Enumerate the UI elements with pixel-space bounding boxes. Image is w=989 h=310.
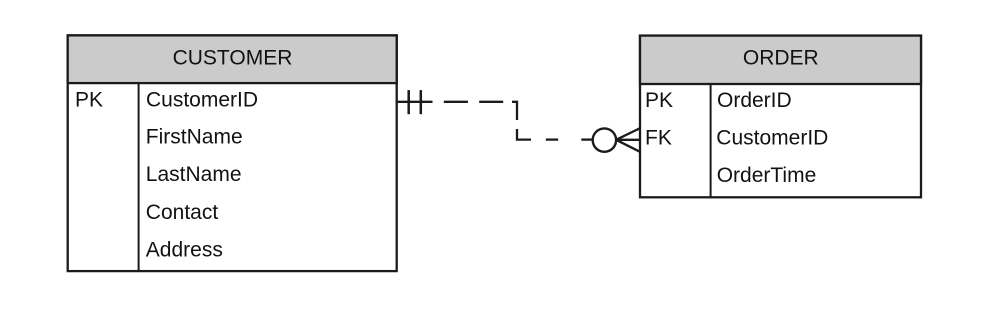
svg-text:FK: FK — [645, 127, 672, 150]
svg-text:PK: PK — [75, 89, 103, 112]
svg-text:Address: Address — [146, 238, 223, 261]
svg-text:ORDER: ORDER — [743, 47, 819, 70]
svg-text:CustomerID: CustomerID — [716, 127, 828, 150]
svg-text:CUSTOMER: CUSTOMER — [173, 47, 293, 70]
svg-text:PK: PK — [645, 89, 673, 112]
svg-text:CustomerID: CustomerID — [146, 89, 258, 112]
svg-text:LastName: LastName — [146, 163, 242, 186]
svg-text:Contact: Contact — [146, 201, 219, 224]
svg-text:FirstName: FirstName — [146, 125, 243, 148]
svg-text:OrderTime: OrderTime — [717, 164, 817, 187]
svg-text:OrderID: OrderID — [717, 89, 792, 112]
